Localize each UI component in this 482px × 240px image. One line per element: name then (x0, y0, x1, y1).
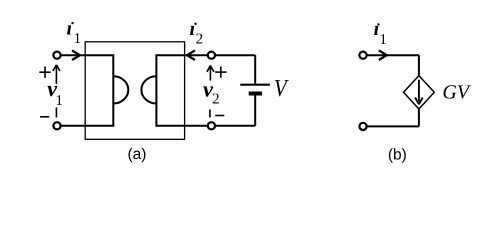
svg-text:GV: GV (442, 81, 471, 103)
svg-text:1: 1 (74, 31, 82, 47)
svg-text:2: 2 (212, 91, 220, 107)
svg-text:ı: ı (190, 18, 196, 40)
svg-text:1: 1 (55, 93, 63, 109)
svg-text:(b): (b) (388, 146, 407, 163)
svg-text:ı: ı (374, 18, 380, 40)
svg-text:2: 2 (196, 31, 204, 47)
svg-text:ı: ı (67, 18, 73, 40)
svg-text:1: 1 (379, 32, 387, 48)
svg-text:(a): (a) (128, 146, 147, 163)
